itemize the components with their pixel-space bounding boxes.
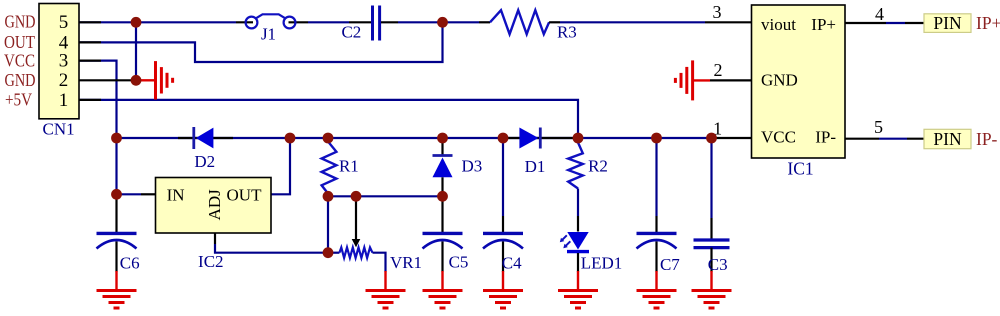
wire IC1 pin5 to PIN terminal [845, 138, 924, 140]
svg-text:C7: C7 [660, 255, 680, 274]
ground symbol at IC1 pin2 (pointing left) [675, 60, 710, 100]
wire ADJ riser to VR1 rail [215, 233, 328, 253]
svg-text:IN: IN [167, 186, 185, 205]
regulator IC2 body [156, 178, 272, 234]
svg-text:J1: J1 [261, 25, 276, 44]
svg-text:+5V: +5V [5, 90, 32, 110]
junction node wiper top [351, 191, 362, 202]
wire top rail from CN1 pin5 to J1 [79, 21, 236, 23]
svg-text:VCC: VCC [761, 128, 796, 147]
resistor R1 [322, 142, 337, 194]
terminal PIN IP+ box [924, 14, 971, 33]
wire bus black lead D2 region [178, 137, 233, 139]
wire bus black lead D1 region [503, 137, 578, 139]
svg-text:D2: D2 [194, 152, 215, 171]
capacitor C7 [637, 138, 677, 272]
wire bus to IC1 pin1 [712, 137, 752, 139]
ground below C5 [423, 271, 463, 308]
svg-text:C6: C6 [120, 254, 140, 273]
capacitor C2 [373, 6, 380, 41]
svg-text:IP-: IP- [976, 129, 998, 149]
svg-text:OUT: OUT [4, 32, 35, 52]
svg-text:ADJ: ADJ [205, 189, 224, 221]
svg-text:C3: C3 [708, 255, 728, 274]
wire pin2 to ground node [79, 79, 136, 81]
junction node bus R2 top [573, 133, 584, 144]
svg-text:PIN: PIN [933, 129, 962, 149]
junction node VR1 left [323, 247, 334, 258]
svg-text:viout: viout [761, 15, 796, 34]
wire R3 to IC1 pin3 [549, 21, 751, 23]
junction node bus R1 top [323, 133, 334, 144]
svg-text:IC1: IC1 [787, 159, 813, 179]
wire J1 to C2 [308, 21, 371, 23]
junction node bus x116 [111, 133, 122, 144]
svg-text:R1: R1 [339, 157, 359, 176]
svg-text:GND: GND [5, 70, 36, 90]
wire R1 bottom riser to VR1 [327, 196, 329, 252]
svg-text:CN1: CN1 [43, 119, 75, 138]
svg-text:R2: R2 [588, 156, 608, 175]
svg-text:C5: C5 [449, 253, 469, 272]
wire pin4 OUT path [79, 22, 443, 62]
sensor IC1 body [752, 5, 846, 158]
svg-text:5: 5 [874, 117, 883, 137]
capacitor C4 [483, 138, 523, 272]
wire C2 to node [381, 21, 443, 23]
junction node bus C7 [651, 133, 662, 144]
svg-text:VR1: VR1 [390, 253, 422, 272]
wiper arrow to VR1 [352, 196, 361, 247]
svg-text:IP+: IP+ [976, 13, 1000, 33]
ground below C3 [692, 271, 732, 308]
wire node to R3 [443, 21, 491, 23]
junction node D3 bottom C5 [437, 191, 448, 202]
svg-text:2: 2 [59, 70, 69, 91]
ground below LED1 [558, 271, 598, 308]
svg-text:C2: C2 [341, 22, 361, 41]
junction node pin2 gnd [131, 75, 142, 86]
junction node bus D3 top [437, 133, 448, 144]
svg-text:IP+: IP+ [811, 15, 836, 34]
svg-text:3: 3 [713, 2, 722, 22]
svg-text:LED1: LED1 [581, 253, 623, 272]
terminal PIN IP- box [924, 129, 971, 148]
svg-text:VCC: VCC [4, 50, 35, 70]
svg-text:D1: D1 [525, 157, 546, 176]
svg-text:2: 2 [714, 60, 723, 80]
capacitor C3 [694, 138, 730, 272]
svg-text:GND: GND [5, 12, 36, 32]
svg-text:GND: GND [761, 71, 798, 90]
wire pin3 VCC riser to bus [79, 61, 117, 138]
svg-text:1: 1 [59, 90, 69, 111]
svg-text:C4: C4 [502, 254, 522, 273]
resistor R2 [568, 142, 583, 216]
ground below C4 [483, 271, 523, 308]
wire main bus [117, 137, 712, 139]
junction node bus C3 [706, 133, 717, 144]
svg-text:3: 3 [59, 51, 69, 72]
svg-text:IP-: IP- [815, 128, 836, 147]
junction node IN C6 [111, 189, 122, 200]
diode D1 [519, 128, 540, 149]
ground below C7 [637, 271, 677, 308]
capacitor C5 [423, 196, 463, 272]
LED LED1 [560, 216, 589, 272]
potentiometer VR1 [328, 247, 386, 272]
junction node C2 R3 pin4 [437, 17, 448, 28]
svg-text:OUT: OUT [227, 186, 263, 205]
wire ground to IC1 pin2 [710, 79, 752, 81]
wire ground riser pin5 to pin2 [135, 22, 137, 80]
diode D2 [194, 127, 214, 149]
wire IC1 pin4 to PIN terminal [845, 22, 924, 24]
resistor R3 [490, 10, 549, 34]
svg-text:PIN: PIN [933, 13, 962, 33]
ground below VR1 [366, 271, 406, 308]
svg-text:R3: R3 [557, 22, 577, 41]
connector CN1 body [39, 4, 79, 119]
junction node bus OUT riser [285, 133, 296, 144]
wire pin1 +5V rail riser to bus [79, 100, 578, 138]
junction node pin5 gnd riser top [131, 17, 142, 28]
wire bus riser to IN node [115, 138, 117, 194]
capacitor C6 [97, 194, 137, 272]
svg-text:D3: D3 [462, 156, 483, 175]
ground symbol at CN1 pin2 (pointing right) [136, 61, 173, 99]
diode D3 [433, 138, 453, 196]
jumper J1 [236, 14, 308, 28]
wire rail R1 bottom to D3 bottom [328, 195, 443, 197]
junction node R1 bottom [323, 191, 334, 202]
svg-text:4: 4 [875, 4, 884, 24]
junction node bus C4 [498, 133, 509, 144]
svg-text:IC2: IC2 [198, 252, 224, 271]
svg-text:5: 5 [59, 12, 69, 33]
wire IN node to IC2 [117, 193, 156, 195]
ground below C6 [97, 271, 137, 308]
wire OUT riser to bus [271, 138, 290, 194]
